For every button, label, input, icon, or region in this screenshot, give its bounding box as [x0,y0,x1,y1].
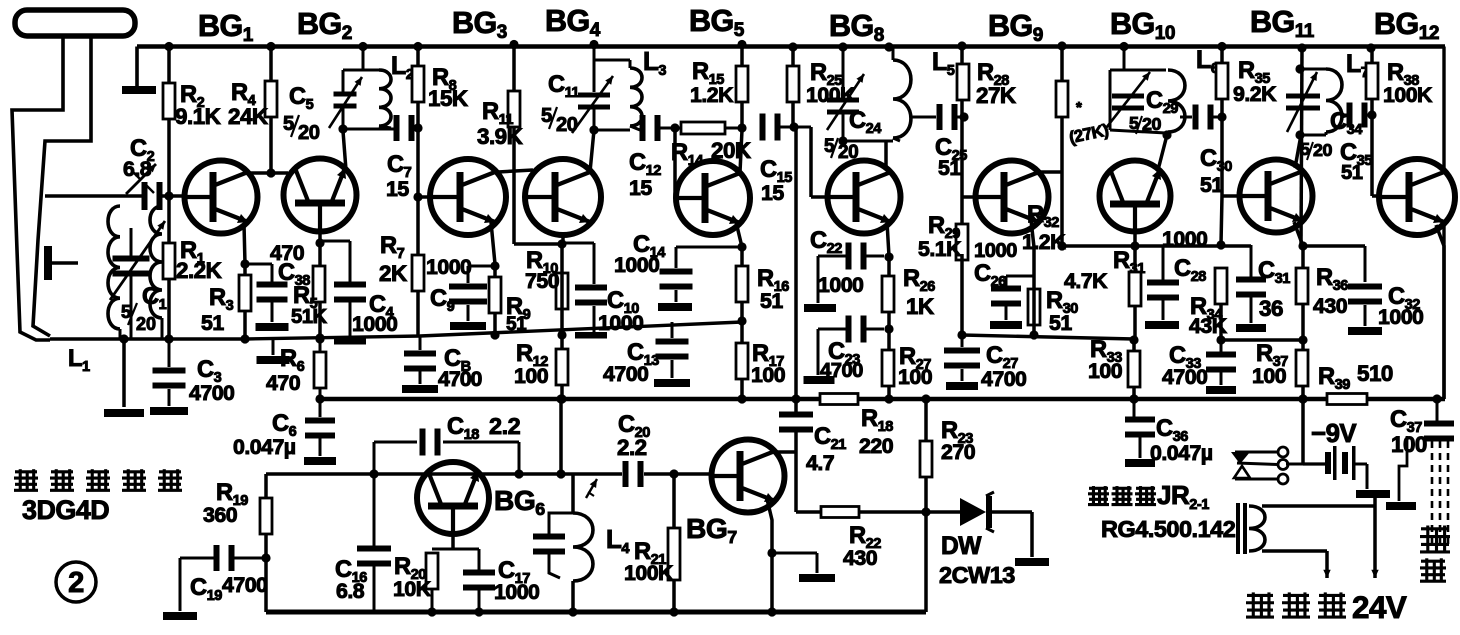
resistor R15 [736,66,748,102]
coil L4 [573,513,593,581]
wire (R25 column) [791,47,795,127]
label C34 [1300,109,1363,160]
antenna [12,10,135,340]
node (base BG3) [413,192,422,201]
label C28 [1174,256,1206,285]
label C31 [1258,258,1290,321]
wire (emitter rail BG10) [1062,244,1251,248]
ground (C3) [150,407,188,415]
relay coil JR2-1 [1236,503,1265,554]
svg-text:−9V: −9V [1311,420,1357,448]
resistor R22 [821,507,859,518]
node (bus tank2) [589,40,598,49]
resistor R30 [1028,289,1040,325]
svg-text:15: 15 [761,181,784,205]
transistor BG6 [417,462,489,534]
node (emitter BG4) [557,239,566,248]
label BG1 [198,9,254,46]
label C30 [1200,146,1232,197]
svg-text:100K: 100K [624,561,674,585]
top supply bus [137,47,1445,87]
label R10 [525,248,559,293]
capacitor C1 (variable) [110,221,165,339]
svg-text:20: 20 [1142,114,1161,134]
ground (C38) [256,323,289,331]
resistor R20 [426,553,438,589]
wire (R22 line) [796,510,960,514]
label R28 [976,60,1016,108]
svg-text:4700: 4700 [820,360,863,382]
node (rail R6) [315,333,324,342]
svg-text:360: 360 [203,503,237,527]
resistor R16 [736,266,748,302]
label 1000 (C26) [974,240,1017,262]
capacitor C10 [575,285,607,306]
capacitor C11 (variable) [572,45,613,134]
emitter rail (right) [962,335,1134,339]
wire (R11 column) [514,45,562,245]
resistor R9 [489,277,501,313]
label C4 [352,292,397,336]
capacitor C20 [623,461,644,487]
node (bus R25) [788,42,797,51]
label R30 [1046,288,1078,335]
wire (relay common) [1286,399,1303,464]
wire (tank3 bottom) [838,136,893,145]
wire (R28 column) [959,46,976,225]
svg-text:5.1K: 5.1K [918,237,962,261]
wire (BG11 collector) [1295,135,1301,168]
wire (BG10 emitter) [1130,231,1139,251]
label C6 [233,411,297,459]
label C26 [974,261,1006,290]
capacitor C27 [944,335,980,381]
label R3 [201,285,234,335]
capacitor C9 [449,284,487,305]
svg-text:6.8: 6.8 [336,579,365,603]
wire (R35 column) [1216,47,1240,250]
wire (R8 column) [416,45,420,337]
label C8 [438,346,482,391]
svg-text:*: * [1076,99,1082,116]
ground (C19) [163,612,197,620]
capacitor C5 (variable) [329,70,362,129]
ground (C27) [946,382,978,390]
node (R36 R37) [1298,335,1307,344]
label C17 [494,558,539,604]
svg-text:750: 750 [525,269,559,293]
svg-text:100: 100 [1391,432,1427,457]
resistor R29 [956,224,968,260]
wire (R12 column) [557,335,566,404]
label R5 [291,283,327,328]
svg-text:24V: 24V [1352,590,1407,625]
capacitor C34 (variable) [1286,72,1320,132]
transistor BG8 [828,161,901,234]
svg-text:3DG4D: 3DG4D [22,495,109,525]
label C29 [1129,88,1178,134]
node (emitter BG1) [240,259,249,268]
wire (R29 to C27) [957,254,966,340]
resistor R14 [681,122,725,134]
svg-text:430: 430 [1313,294,1347,318]
capacitor L4 parallel cap [533,513,573,578]
resistor R5 [313,266,325,302]
label BG12 [1374,7,1439,44]
wire (L6 to C30) [1180,116,1192,119]
label R8 [428,65,468,111]
trimmer arrow (L4) [586,479,597,498]
label C23 [820,339,863,382]
svg-text:4700: 4700 [189,381,234,405]
label C22 [810,228,863,297]
label C13 [603,340,659,386]
capacitor C16 [357,546,391,567]
wire (R34 bottom) [1216,304,1225,345]
note transistors are 3DG4D [14,469,182,525]
node (C19) [261,553,270,562]
svg-text:1000: 1000 [598,311,643,335]
label C1 [121,284,167,334]
resistor R21 [668,528,680,580]
wire (BG4 emitter) [561,235,565,244]
shielded output [1432,441,1448,549]
antenna coil tap [44,246,78,280]
node (base BG1) [164,191,173,200]
node (C7 R8) [413,123,422,132]
label C15 [760,157,792,205]
label R20 [393,554,432,601]
label output [1420,526,1450,582]
svg-text:51K: 51K [291,306,327,328]
node (bus R32) [1057,41,1066,50]
capacitor C24 (variable) [827,47,864,141]
wire (C12 to base BG5) [657,123,680,197]
ground (L1 bottom) [104,334,144,417]
wire (tank1 bottom) [338,124,395,133]
svg-text:100K: 100K [806,83,856,107]
svg-text:3.9K: 3.9K [477,124,523,149]
wire (R33 column) [1129,306,1138,404]
label C19 [190,573,267,604]
svg-text:51: 51 [760,289,783,313]
resistor R36 [1296,268,1308,304]
label R15 [690,59,734,107]
svg-text:430: 430 [843,546,877,570]
ground (shield) [1386,502,1416,510]
junction bar (C4 rail) [334,338,366,345]
node (emitter BG2) [315,238,324,247]
wire (C7 to R8) [411,127,418,130]
svg-text:10K: 10K [393,577,432,601]
svg-text:51: 51 [1049,311,1072,335]
wire (BG9 emitter) [1031,220,1034,276]
resistor R8 [412,66,424,102]
capacitor C23 [846,316,885,343]
wire (R32 column) [1057,46,1066,251]
resistor R1 [163,243,175,279]
resistor R2 [163,83,175,119]
resistor R4 [265,81,277,117]
resistor R27 [882,350,894,386]
wire (emitter rail right) [1303,244,1365,248]
wire (R2 column) [167,47,171,340]
label relay JR2-1 [1088,480,1209,513]
wire (C18 branch) [369,442,523,479]
wire (to C10) [562,243,594,334]
node (bus R8) [413,42,422,51]
transistor BG3 [430,159,506,235]
wire (to C26) [1006,276,1034,320]
ground (BG7 emitter) [799,574,835,582]
capacitor C6 [305,399,335,456]
resistor R19 [260,498,272,534]
wire (BG8 emitter) [887,222,889,399]
capacitor C35 [1347,103,1368,128]
node (bus R11) [509,40,518,49]
capacitor C19 [214,545,267,571]
label C14 [614,232,666,277]
wire (BG9 collector) [1037,170,1062,174]
svg-text:4700: 4700 [603,362,648,386]
label R22 [843,523,881,570]
label C9 [430,286,455,315]
capacitor C8 [404,336,436,384]
label C11 [541,72,579,136]
ground (C36) [1125,459,1155,467]
ground (C22) [804,304,836,312]
label C37 [1390,407,1427,457]
svg-text:2: 2 [68,567,84,599]
label C18 2.2 [447,413,521,443]
junction bar (C10 rail) [575,332,607,339]
label BG7 [686,512,737,547]
wire (mid bus to box) [556,394,565,478]
wire (tank2 bottom) [589,125,630,134]
svg-text:20: 20 [1313,140,1332,160]
node (bus tank4) [1119,42,1128,51]
transistor BG1 [185,161,258,234]
capacitor C17 [463,549,495,617]
wire (C35 to R38 col) [1364,114,1373,117]
mid bus (B+ rail) [320,397,1445,402]
capacitor C33 [1206,340,1236,385]
svg-text:220: 220 [859,434,893,458]
svg-text:1K: 1K [906,294,934,319]
wire (tank4 left) [1110,47,1166,134]
node (R26 C23) [884,324,893,333]
svg-text:9.2K: 9.2K [1233,82,1277,106]
wire (C15 to BG8 base) [777,122,827,197]
capacitor C18 [420,429,441,456]
capacitor C15 [760,114,781,141]
wire (BG8 collector) [884,141,888,168]
wire (BG11 emitter) [1294,222,1303,399]
wire (R14 to C15) [725,127,740,130]
ground (C23) [804,376,835,384]
wire (R23 column) [924,399,928,612]
svg-text:510: 510 [1357,361,1393,386]
svg-text:20: 20 [136,314,156,334]
node (emitter BG5) [737,242,746,251]
resistor R25 [787,66,799,102]
svg-text:20: 20 [556,114,578,136]
label R16 [757,266,789,313]
wire (BG3 collector to BG4) [498,170,533,172]
wire (BG7 collector feedback) [794,127,798,512]
wire (BG5 emitter) [736,222,742,399]
resistor R6 [314,352,326,388]
wire (shield ground) [1399,436,1407,501]
resistor R26 [882,276,894,312]
coil L5 [893,47,911,141]
label C3 [189,357,234,405]
node (emitter BG3) [490,261,499,270]
wire (L7 to C35) [1340,114,1348,117]
label R26 [903,266,935,319]
svg-text:1000: 1000 [352,312,397,336]
label L4 [606,524,630,557]
wire (BG7 collector) [771,450,796,454]
ground (C8) [402,385,438,393]
svg-text:15: 15 [386,177,409,201]
svg-text:51: 51 [1341,162,1363,184]
svg-text:15K: 15K [428,86,468,111]
node (bus R4) [266,42,275,51]
node (bus R15) [737,40,746,49]
label 470 [270,241,304,265]
wire (to C4) [320,241,350,339]
ground (C13) [654,379,690,387]
node (bus R2) [164,42,173,51]
label BG10 [1110,7,1175,44]
wire (diode to ground) [992,512,1032,557]
resistor R10 [556,273,568,309]
svg-text:100: 100 [1088,359,1122,383]
svg-text:1000: 1000 [1162,227,1207,251]
resistor R17 [736,343,748,379]
node (bus C37) [1432,394,1441,403]
emitter rail (left) [50,322,742,339]
coil L1 secondary [150,206,162,318]
resistor R3 [239,275,251,311]
wire (R34 to R36 node) [1221,338,1303,342]
svg-text:2.2: 2.2 [617,435,647,460]
svg-text:4700: 4700 [981,367,1026,391]
node (rail R5) [315,334,324,343]
transistor BG10 [1100,161,1171,232]
wire (BG2 collector) [343,131,346,170]
resistor R37 [1296,350,1308,386]
label R21 [624,539,674,585]
capacitor C31 [1236,245,1266,323]
transistor BG9 [976,161,1049,234]
wire (C23 ground) [818,329,848,375]
node (tank4 bottom) [1162,130,1171,139]
wire (coil top) [1262,496,1375,506]
relay contact bottom [1234,466,1288,484]
label C12 [629,150,661,200]
label L6 [1196,46,1219,77]
label C35 [1340,140,1372,184]
wire (R4 column) [266,47,275,178]
svg-text:1000: 1000 [818,273,863,297]
svg-text:100: 100 [514,364,548,388]
label circled 2 [56,562,96,602]
capacitor C13 [656,339,689,360]
wire (C25 to R28 col) [954,116,964,119]
ground (C32) [1348,327,1382,335]
wire (to C14) [676,247,742,302]
diode DW 2CW13 [960,492,994,532]
wire (BG7 emitter) [767,499,777,617]
resistor R33 [1128,351,1140,387]
capacitor C4 [334,282,366,303]
node (R22 diode) [921,507,930,516]
node (bus R28) [957,41,966,50]
wire (BG4 collector) [590,130,594,172]
label BG11 [1250,5,1315,42]
svg-text:1.2K: 1.2K [1022,230,1066,254]
wire (tank5 left) [1295,48,1326,246]
svg-text:1000: 1000 [426,255,471,279]
wire (BG1 emitter) [244,224,245,339]
svg-text:2.2: 2.2 [489,413,521,439]
label L5 [932,48,955,79]
label C36 [1150,416,1213,465]
wire (R20 bottom) [427,589,436,617]
transistor BG7 [712,440,785,513]
resistor R11 [508,91,520,127]
resistor R23 [920,441,932,477]
node (bus mid R27) [884,394,893,403]
resistor R32 [1056,81,1068,117]
node (emitter BG8 C22) [884,252,893,261]
node (bus feedback) [791,394,800,403]
label 1000 (C28) [1162,227,1207,251]
wire (C16 column) [373,474,376,612]
ground (C28) [1145,321,1179,329]
node (bus R6) [315,394,324,403]
ground (C9) [450,322,486,330]
capacitor C37 [1424,399,1454,442]
resistor R18 [820,394,858,405]
wire (R6) [319,338,322,399]
wire (coil top to C2) [45,194,185,198]
wire (R15 column) [737,45,746,133]
label R23 [941,418,975,464]
label C2 [123,136,155,181]
resistor R38 [1366,63,1378,99]
svg-text:51: 51 [938,156,961,180]
ground (diode) [1015,558,1049,566]
capacitor C14 [660,269,693,290]
label C16 [335,557,367,603]
svg-text:2.2K: 2.2K [176,258,222,283]
svg-text:0.047µ: 0.047µ [1150,441,1213,465]
resistor R39 [1327,394,1367,405]
label C33 [1162,343,1207,389]
capacitor C22 [846,243,885,270]
label C25 [935,135,967,180]
label BG3 [452,6,507,43]
label C7 [386,152,412,201]
label C10 [598,288,643,335]
wire (BG10 collector) [1158,135,1167,170]
node (bus tank5) [1297,43,1306,52]
node (bus R23) [921,394,930,403]
node (bus relay) [1298,394,1307,403]
